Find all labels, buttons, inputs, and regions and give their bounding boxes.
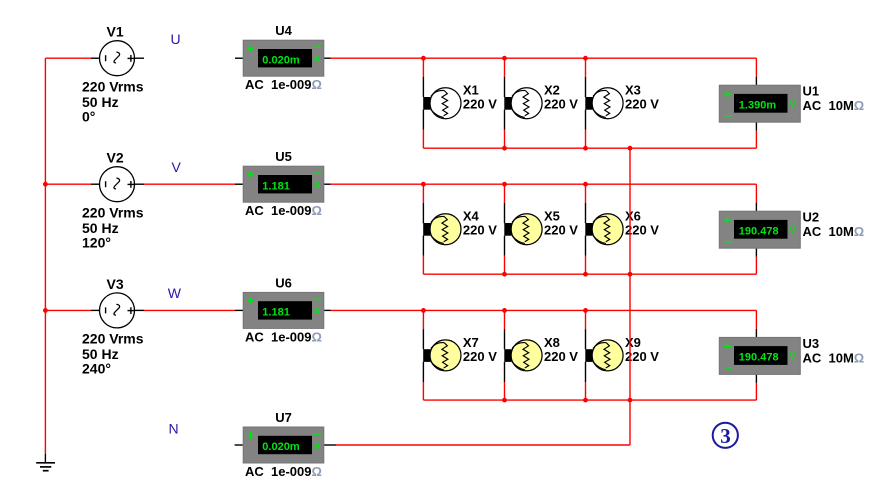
svg-text:W: W: [168, 285, 182, 301]
svg-text:V2: V2: [107, 150, 124, 166]
svg-text:AC 1e-009Ω: AC 1e-009Ω: [245, 464, 322, 479]
svg-text:U7: U7: [275, 410, 292, 425]
svg-text:220 Vrms: 220 Vrms: [82, 205, 144, 221]
svg-text:120°: 120°: [82, 235, 111, 251]
svg-text:A: A: [314, 441, 321, 452]
svg-text:V: V: [172, 159, 182, 175]
svg-text:240°: 240°: [82, 361, 111, 377]
svg-text:A: A: [314, 180, 321, 191]
svg-text:X5: X5: [544, 209, 560, 224]
svg-text:U2: U2: [803, 210, 820, 225]
svg-text:U6: U6: [275, 275, 292, 290]
svg-text:190.478: 190.478: [739, 225, 779, 237]
svg-text:U: U: [171, 31, 181, 47]
svg-text:220 V: 220 V: [544, 349, 578, 364]
svg-text:X2: X2: [544, 83, 560, 98]
svg-text:220 V: 220 V: [463, 97, 497, 112]
svg-text:V1: V1: [107, 24, 124, 40]
svg-text:V: V: [789, 351, 796, 362]
svg-text:1.181: 1.181: [262, 180, 290, 192]
svg-text:U1: U1: [803, 84, 820, 99]
svg-text:X1: X1: [463, 83, 479, 98]
svg-text:220 V: 220 V: [544, 97, 578, 112]
svg-text:U4: U4: [275, 23, 292, 38]
svg-text:0°: 0°: [82, 109, 95, 125]
svg-text:V3: V3: [107, 276, 124, 292]
svg-text:V: V: [789, 99, 796, 110]
svg-text:U5: U5: [275, 149, 292, 164]
svg-text:AC 10MΩ: AC 10MΩ: [803, 98, 865, 113]
svg-text:190.478: 190.478: [739, 352, 779, 364]
svg-text:AC 10MΩ: AC 10MΩ: [803, 350, 865, 365]
svg-text:1.181: 1.181: [262, 307, 290, 319]
svg-text:220 V: 220 V: [625, 97, 659, 112]
svg-text:X3: X3: [625, 83, 641, 98]
svg-text:X8: X8: [544, 335, 560, 350]
svg-text:X6: X6: [625, 209, 641, 224]
svg-text:AC 1e-009Ω: AC 1e-009Ω: [245, 203, 322, 218]
svg-text:N: N: [169, 421, 179, 437]
svg-text:X4: X4: [463, 209, 480, 224]
svg-text:X7: X7: [463, 335, 479, 350]
svg-text:A: A: [314, 306, 321, 317]
svg-text:X9: X9: [625, 335, 641, 350]
svg-text:3: 3: [720, 424, 731, 448]
svg-text:0.020m: 0.020m: [262, 441, 300, 453]
svg-text:V: V: [789, 225, 796, 236]
svg-text:AC 1e-009Ω: AC 1e-009Ω: [245, 77, 322, 92]
svg-text:A: A: [314, 54, 321, 65]
svg-text:1.390m: 1.390m: [739, 99, 777, 111]
svg-text:0.020m: 0.020m: [262, 54, 300, 66]
svg-text:220 V: 220 V: [463, 223, 497, 238]
svg-text:220 V: 220 V: [463, 349, 497, 364]
svg-text:220 Vrms: 220 Vrms: [82, 79, 144, 95]
svg-text:U3: U3: [803, 336, 820, 351]
svg-text:220 V: 220 V: [544, 223, 578, 238]
svg-text:220 Vrms: 220 Vrms: [82, 331, 144, 347]
svg-text:AC 1e-009Ω: AC 1e-009Ω: [245, 329, 322, 344]
svg-text:AC 10MΩ: AC 10MΩ: [803, 224, 865, 239]
